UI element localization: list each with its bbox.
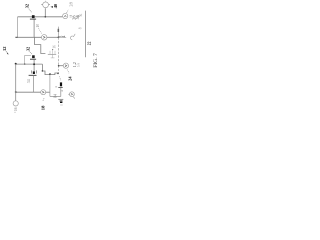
node junction lower mid (49, 73, 51, 75)
terminal T2 (output circle) (13, 101, 18, 106)
net vertical mid-right (58, 37, 60, 65)
svg-text:18: 18 (41, 105, 46, 110)
terminal circle C6 (68, 93, 69, 95)
net line right rail (84, 11, 86, 58)
svg-text:84: 84 (53, 94, 57, 98)
wire staircase lower (42, 64, 50, 75)
node right step junction (57, 73, 59, 75)
node staircase corner (42, 70, 44, 72)
svg-text:34: 34 (27, 79, 31, 83)
wire to right step (50, 73, 58, 75)
transistor Q1 (square gate device top-left) (32, 15, 35, 18)
label 36 circle leader (70, 34, 75, 40)
source V2 (circle mid rail) (63, 13, 68, 18)
svg-text:32: 32 (25, 47, 30, 51)
svg-text:12: 12 (2, 47, 7, 51)
wire mid rail right (47, 36, 58, 38)
wire Q3 gate feedback L (25, 55, 31, 64)
resistor R1 (small element above node) (57, 27, 59, 37)
node mid-right junction (58, 65, 60, 67)
wire Q1 drain stem (33, 19, 35, 37)
svg-text:32: 32 (25, 4, 30, 8)
transistor Q2 (lateral device mid) (48, 53, 56, 55)
svg-text:10: 10 (36, 24, 40, 28)
wire mid rail (18, 36, 42, 38)
wire loop left (feedback loop around input stage) (17, 17, 19, 38)
svg-text:4: 4 (61, 35, 66, 38)
svg-text:16: 16 (14, 107, 18, 111)
wire top rail (18, 16, 63, 18)
current source I2 (circle mid) (42, 35, 47, 40)
ground (58, 98, 63, 100)
transistor Q5 (square gate device bottom right) (59, 76, 61, 81)
transistor Q3 (square gate device left mid) (32, 55, 35, 58)
node gate-wire junction (24, 63, 26, 65)
node top junction (44, 16, 46, 18)
svg-text:28: 28 (69, 1, 74, 6)
svg-text:4: 4 (60, 90, 64, 92)
node lower-left (15, 63, 17, 65)
wire to current source I3 (59, 65, 64, 67)
svg-text:22: 22 (87, 41, 91, 45)
wire I1 stem (44, 8, 46, 17)
svg-text:5.9: 5.9 (76, 63, 80, 68)
wire stub right of V2 (70, 16, 72, 17)
svg-text:24: 24 (67, 76, 72, 81)
label 28 leader (67, 10, 69, 13)
wire left output column (15, 64, 17, 101)
wire bottom rail (16, 91, 41, 93)
wire to ground (50, 95, 61, 97)
wire bottom rail right (46, 91, 50, 93)
svg-text:FIG. 7: FIG. 7 (93, 53, 99, 68)
node Q3 source junction (33, 63, 35, 65)
wire staircase from Q1 drain (35, 37, 46, 53)
wire lower rail (16, 63, 43, 65)
svg-text:8: 8 (79, 27, 83, 29)
node loop corner tick (15, 36, 17, 38)
transistor Q4 (square gate device lower left) (33, 71, 35, 74)
node bottom-left junction (15, 91, 17, 93)
current source I3 (circle lower right) (63, 63, 68, 68)
svg-text:40: 40 (53, 3, 58, 8)
current source I1 (top circle) (43, 2, 49, 8)
svg-text:16: 16 (53, 45, 57, 49)
wire right column down (49, 75, 51, 97)
node mid junction (58, 36, 60, 38)
label 24b leader (67, 70, 69, 74)
current source I4 (circle bottom) (41, 90, 46, 95)
